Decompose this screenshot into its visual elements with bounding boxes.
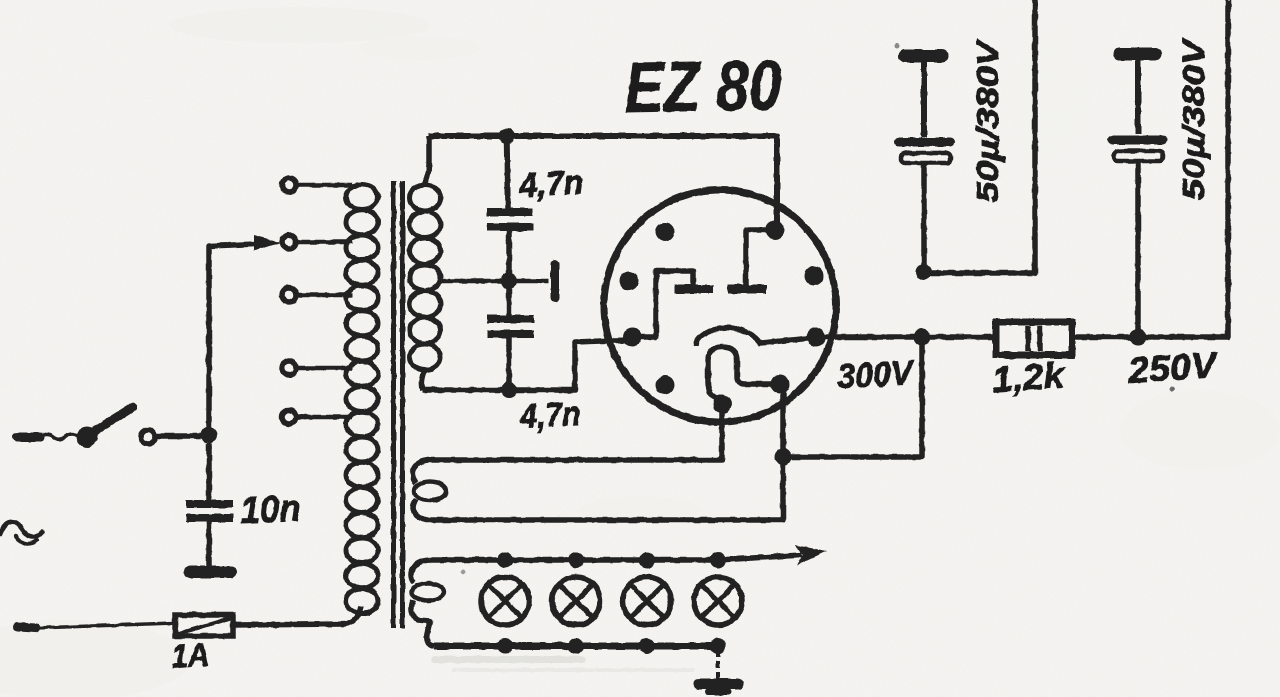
electrolytic C3 50u/380V (899, 56, 951, 272)
wire: HV top to rectifier anode pin (429, 136, 777, 228)
capacitor 10n (186, 443, 233, 566)
capacitor C2 4,7n (487, 285, 534, 386)
primary tap terminals (282, 178, 352, 424)
fuse 1A (175, 615, 233, 636)
resistor 1,2k (996, 322, 1072, 355)
pin 8 (heater) (771, 375, 790, 394)
svg-text:4,7n: 4,7n (517, 164, 584, 205)
pilot lamp L1 (481, 552, 529, 654)
transformer primary winding (346, 185, 378, 614)
internal heater hook (708, 347, 779, 401)
chassis bar under 10n (190, 566, 231, 578)
pin 1 (656, 223, 675, 242)
svg-text:EZ 80: EZ 80 (624, 46, 782, 128)
svg-text:1A: 1A (170, 635, 210, 675)
arrowhead 6.3V takeoff (794, 545, 827, 565)
node on top wire (499, 128, 515, 144)
electrolytic C4 50u/380V (1112, 54, 1163, 337)
internal lead: pin2 to right plate (746, 230, 775, 285)
anode plate bar (right) (732, 285, 762, 294)
svg-text:10n: 10n (240, 488, 301, 532)
node: center tap junction (501, 273, 517, 289)
pilot lamp winding (411, 560, 444, 646)
pin 9 (heater) (713, 395, 732, 414)
svg-text:50µ/380V: 50µ/380V (970, 38, 1005, 203)
pilot lamp L2 (552, 552, 600, 654)
internal cathode arc (696, 328, 812, 346)
wire: lamp bottom bus (434, 643, 719, 650)
tap selector arrowhead (254, 235, 281, 251)
svg-text:250V: 250V (1126, 344, 1221, 391)
node: heater/cathode junction (775, 449, 792, 466)
pilot lamp L4 (694, 552, 742, 654)
wire: HV center tap (438, 279, 548, 284)
node: switch output junction (201, 427, 217, 443)
internal lead: pin5 to left plate (632, 271, 693, 337)
chassis bar at center tap (551, 264, 560, 298)
wire: pin5 to outside (already drawn via HV bottom) / pin6 output (822, 334, 994, 340)
node: HV bottom junction (501, 382, 517, 398)
svg-text:1,2k: 1,2k (991, 354, 1068, 400)
pin 2 (anode) (766, 221, 785, 240)
rectifier tube EZ80 socket outline (604, 190, 836, 422)
transformer HV secondary winding (410, 136, 441, 390)
pin 7 (656, 376, 675, 395)
capacitor C1 4,7n (487, 140, 533, 277)
node: C3 negative junction (916, 264, 932, 280)
wire: junction up to primary tap (209, 244, 256, 435)
transformer T1 core (391, 181, 396, 628)
pilot lamp L3 (623, 552, 671, 654)
anode plate bar (left) (679, 285, 709, 294)
wire: resistor to 250V rail (1072, 0, 1228, 337)
ground symbol (699, 650, 738, 692)
svg-text:50µ/380V: 50µ/380V (1176, 37, 1211, 200)
wire: HV bottom to rectifier anode pin (423, 340, 628, 390)
pin 6 (cathode) (807, 328, 826, 347)
svg-text:4,7n: 4,7n (519, 395, 582, 436)
pin 3 (620, 272, 639, 291)
wire: lamp top bus with arrow (430, 555, 802, 560)
node: 250V junction (1130, 329, 1147, 346)
heater winding of rectifier (412, 390, 783, 520)
mains AC symbol ~ (0, 522, 42, 537)
node: 300V junction (914, 329, 931, 346)
pin 4 (805, 267, 824, 286)
svg-text:300V: 300V (836, 354, 916, 396)
wire: fuse to transformer (233, 606, 361, 625)
wire: C3 to top rail (924, 0, 1035, 273)
wire: junction to 300V node (783, 337, 922, 457)
switch S1 (17, 407, 202, 448)
wire: mains bottom lead (17, 627, 36, 628)
pin 5 (anode) (623, 328, 642, 347)
